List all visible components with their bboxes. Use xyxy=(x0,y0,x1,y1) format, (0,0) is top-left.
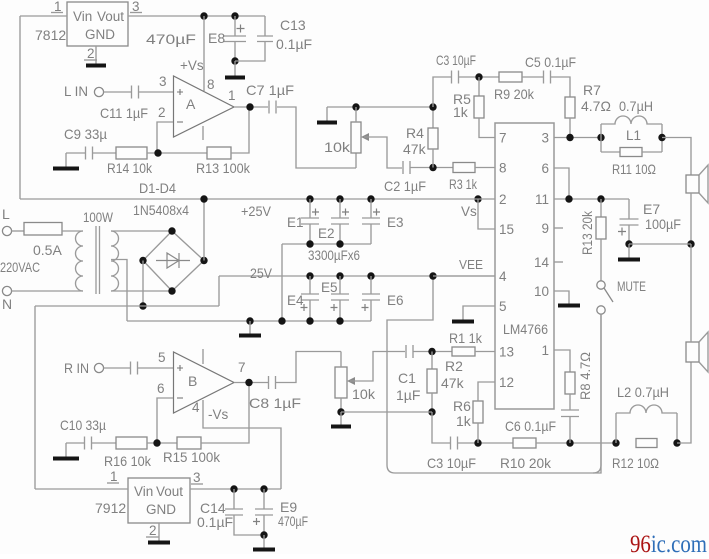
svg-text:R12 10Ω: R12 10Ω xyxy=(612,455,659,471)
svg-text:R16 10k: R16 10k xyxy=(104,453,152,469)
svg-text:E5: E5 xyxy=(321,280,338,295)
wire 7912 Vin xyxy=(35,488,128,490)
wire R7 to pin3 line xyxy=(569,118,571,138)
svg-text:R14 10k: R14 10k xyxy=(107,160,153,176)
capacitor C10 33u xyxy=(85,437,92,450)
wire +25V rail xyxy=(20,198,478,200)
wire -25V jog up xyxy=(218,276,220,306)
wire C5 to R7 xyxy=(550,77,570,97)
capacitor C14 0.1uF xyxy=(233,489,235,509)
svg-text:12: 12 xyxy=(499,375,514,390)
svg-text:R13 20k: R13 20k xyxy=(580,211,595,255)
node R13 top xyxy=(597,195,604,202)
resistor R8 4.7ohm (pin1) xyxy=(554,350,570,372)
wire N to transformer xyxy=(12,290,84,292)
svg-text:220VAC: 220VAC xyxy=(0,259,40,275)
svg-text:Vout: Vout xyxy=(156,484,183,499)
svg-text:C9 33µ: C9 33µ xyxy=(64,126,107,142)
wire left border to 7912 xyxy=(34,306,36,489)
regulator U2 7812 xyxy=(67,2,128,46)
svg-text:2: 2 xyxy=(87,46,95,61)
svg-text:C6 0.1µF: C6 0.1µF xyxy=(505,418,556,434)
capacitor E6 3300uF xyxy=(370,276,372,294)
svg-text:15: 15 xyxy=(499,222,514,237)
transformer T1 core xyxy=(96,226,100,294)
svg-text:E4: E4 xyxy=(287,293,304,308)
svg-text:2: 2 xyxy=(149,523,157,538)
wire L2 to speaker2 xyxy=(677,362,691,443)
svg-text:R1 1k: R1 1k xyxy=(449,330,483,346)
node VEE branch xyxy=(429,272,436,279)
svg-text:0.1µF: 0.1µF xyxy=(197,514,233,530)
svg-text:B: B xyxy=(188,373,197,389)
wire op-amp B -Vs to 7912 xyxy=(203,400,281,489)
transformer T1 primary xyxy=(76,231,83,291)
svg-text:10k: 10k xyxy=(352,386,376,402)
svg-text:8: 8 xyxy=(207,77,215,92)
resistor R16 10k xyxy=(116,437,147,449)
node C14 top xyxy=(230,485,237,492)
svg-text:47k: 47k xyxy=(441,375,465,391)
wire pot A top rail xyxy=(327,106,433,108)
node bridge right xyxy=(200,257,207,264)
capacitor C1 1uF xyxy=(406,345,413,358)
capacitor C8 1uF xyxy=(269,376,276,389)
ground C9 xyxy=(65,153,67,167)
capacitor C3 10uF bottom xyxy=(451,437,458,450)
svg-text:0.7µH: 0.7µH xyxy=(619,98,653,114)
svg-text:L IN: L IN xyxy=(64,83,88,99)
wiper pot A xyxy=(361,133,369,141)
node E5 top xyxy=(336,272,343,279)
wire node to C3 xyxy=(433,77,451,107)
node bridge bottom xyxy=(168,287,175,294)
terminal L xyxy=(2,226,11,235)
node E6 top xyxy=(367,272,374,279)
wire 7912 Vout line xyxy=(190,488,281,490)
svg-text:+Vs: +Vs xyxy=(180,58,204,73)
wire E7 to speaker common xyxy=(629,243,691,245)
wire ground to C10 xyxy=(66,442,84,444)
wire R3 to pin 8 xyxy=(475,167,495,169)
wire pot B to R2 bottom xyxy=(341,411,432,413)
resistor R5 1k xyxy=(478,77,480,96)
wire bridge + to +25V rail xyxy=(203,199,205,261)
wire pin6 to pin11 node xyxy=(554,168,569,199)
svg-text:R4: R4 xyxy=(406,125,424,141)
capacitor C5 0.1uF xyxy=(544,71,551,84)
node E7 bottom xyxy=(625,240,632,247)
node R7 bottom xyxy=(566,134,573,141)
svg-text:L1: L1 xyxy=(626,128,641,143)
wire pot B wiper to C1 xyxy=(350,352,405,382)
svg-text:1k: 1k xyxy=(456,413,472,429)
wire C12 to op-amp B pin5 xyxy=(138,367,173,369)
svg-text:E6: E6 xyxy=(387,293,404,308)
node E1 top xyxy=(306,195,313,202)
inductor L2 0.7uH xyxy=(615,413,617,443)
bridge rectifier D1-D4 xyxy=(143,231,204,291)
potentiometer VR2 10k xyxy=(335,367,347,398)
wire L to fuse xyxy=(12,230,25,232)
node E3 top xyxy=(367,195,374,202)
wire C3 to R9 xyxy=(459,76,499,78)
svg-text:R11 10Ω: R11 10Ω xyxy=(612,161,656,177)
ground E9 xyxy=(263,535,265,548)
svg-text:100W: 100W xyxy=(83,209,114,225)
capacitor E3 3300uF xyxy=(370,199,372,218)
wire pin3 output xyxy=(554,137,601,139)
svg-text:E7: E7 xyxy=(643,201,660,217)
wire mid rail to 0V xyxy=(281,244,283,321)
wire pot A wiper to C2 xyxy=(364,137,402,168)
svg-text:7: 7 xyxy=(499,131,507,146)
svg-text:C10 33µ: C10 33µ xyxy=(60,417,106,433)
node E4 top xyxy=(306,272,313,279)
regulator U4 7912 xyxy=(128,478,190,523)
svg-text:8: 8 xyxy=(499,161,507,176)
node bridge top xyxy=(168,227,175,234)
capacitor E9 470uF xyxy=(263,489,265,509)
svg-text:1µF: 1µF xyxy=(396,387,420,403)
op-amp U3 LM4766 xyxy=(495,123,554,409)
node bridge plus on rail xyxy=(200,195,207,202)
svg-text:1k: 1k xyxy=(453,104,469,120)
svg-text:VEE: VEE xyxy=(459,257,483,272)
svg-text:R10 20k: R10 20k xyxy=(500,455,552,471)
svg-text:LM4766: LM4766 xyxy=(503,322,548,337)
wire R16 to R15 xyxy=(147,442,177,444)
capacitor E2 3300uF xyxy=(339,199,341,218)
resistor R6 1k xyxy=(473,401,483,423)
wire C7 to pot bottom xyxy=(277,107,356,168)
ground 0V rail xyxy=(249,321,251,334)
svg-text:C8 1µF: C8 1µF xyxy=(249,395,301,411)
node R4 bottom xyxy=(429,164,436,171)
svg-text:E8: E8 xyxy=(208,30,225,46)
capacitor C9 33u xyxy=(86,147,93,160)
ground pin10 xyxy=(568,303,570,304)
wire pin11 mute node xyxy=(554,198,629,200)
resistor R11 10ohm xyxy=(661,124,663,152)
node R2 top xyxy=(428,348,435,355)
capacitor C7 1uF xyxy=(269,101,276,114)
svg-text:1: 1 xyxy=(541,343,549,358)
resistor R13 100k xyxy=(207,147,231,159)
node L1 right xyxy=(658,134,665,141)
wire VEE to pin4 xyxy=(433,275,495,277)
svg-text:7: 7 xyxy=(238,360,246,375)
svg-text:C2 1µF: C2 1µF xyxy=(384,178,426,194)
ground 7912 GND xyxy=(158,523,160,541)
capacitor E4 3300uF xyxy=(309,276,311,294)
svg-text:3: 3 xyxy=(159,74,167,89)
wire op-amp A pin4 stub xyxy=(202,126,204,140)
svg-text:C11 1µF: C11 1µF xyxy=(100,105,148,121)
wire op-amp B output xyxy=(234,382,268,384)
speaker SP2 xyxy=(686,342,699,362)
capacitor C12 1uF xyxy=(131,362,138,375)
svg-text:C3 10µF: C3 10µF xyxy=(436,52,476,68)
resistor R4 47k xyxy=(432,107,434,128)
svg-text:E1: E1 xyxy=(287,215,304,230)
wire 0V rail xyxy=(127,320,371,322)
wire speaker2 to common xyxy=(690,244,692,342)
inductor L1 0.7uH xyxy=(600,124,602,152)
wire E-bank mid rail xyxy=(282,243,371,245)
ground pot A top xyxy=(326,107,328,121)
node R4 top xyxy=(429,103,436,110)
svg-text:25V: 25V xyxy=(250,265,273,281)
svg-text:R9 20k: R9 20k xyxy=(494,86,535,102)
wire VEE route bottom xyxy=(387,276,601,473)
diode symbol xyxy=(156,253,190,268)
svg-text:2: 2 xyxy=(499,192,507,207)
svg-text:7812: 7812 xyxy=(35,27,66,43)
capacitor E1 3300uF xyxy=(309,199,311,218)
svg-text:Vs: Vs xyxy=(461,204,477,219)
transformer T1 secondary xyxy=(111,231,119,291)
svg-text:11: 11 xyxy=(535,192,549,207)
ground pot B xyxy=(340,412,342,425)
resistor R3 1k xyxy=(453,163,475,173)
wire Vs to pin2 xyxy=(478,198,495,200)
svg-text:L2 0.7µH: L2 0.7µH xyxy=(617,384,669,400)
svg-text:4: 4 xyxy=(192,400,200,415)
capacitor C2 1uF xyxy=(403,161,410,174)
svg-text:R8 4.7Ω: R8 4.7Ω xyxy=(578,352,593,400)
resistor R1 1k xyxy=(452,347,475,356)
svg-text:100µF: 100µF xyxy=(645,216,681,232)
svg-text:C1: C1 xyxy=(398,370,416,386)
wire pin14 stub xyxy=(554,261,563,263)
wire Vs to pin15 xyxy=(478,199,495,229)
svg-text:14: 14 xyxy=(534,255,550,270)
node E2 top xyxy=(336,195,343,202)
svg-text:E3: E3 xyxy=(387,215,404,230)
capacitor C6 0.1uF xyxy=(561,410,579,417)
wire speaker1 to ground bus xyxy=(690,193,692,244)
node bridge left xyxy=(139,257,146,264)
wire bridge - down xyxy=(142,261,144,307)
wire secondary top to bridge xyxy=(111,230,172,232)
node -25V branch xyxy=(139,302,146,309)
svg-text:10k: 10k xyxy=(324,139,351,155)
svg-text:C13: C13 xyxy=(280,17,306,33)
svg-text:96ic.com: 96ic.com xyxy=(630,531,707,554)
wire C1 to R1 xyxy=(413,351,452,353)
capacitor C3 10uF top xyxy=(452,71,459,84)
wire R10 to L2 xyxy=(536,442,616,444)
node E8 top xyxy=(231,12,238,19)
svg-text:0.5A: 0.5A xyxy=(33,242,62,258)
wire L IN to C11 xyxy=(104,91,131,93)
svg-text:1: 1 xyxy=(228,88,236,103)
svg-text:47k: 47k xyxy=(403,141,427,157)
svg-text:A: A xyxy=(186,96,196,112)
svg-text:5: 5 xyxy=(499,299,507,314)
resistor R14 10k xyxy=(116,147,147,159)
ground 7812 GND xyxy=(95,46,97,64)
wire secondary bottom to bridge xyxy=(111,290,172,292)
svg-text:L: L xyxy=(2,206,10,222)
wire C9 to R14 xyxy=(93,152,116,154)
svg-text:7912: 7912 xyxy=(95,500,126,516)
wire C2 to R3 xyxy=(410,167,453,169)
resistor R2 47k xyxy=(431,352,433,370)
potentiometer VR1 10k xyxy=(351,122,361,153)
wire center tap down xyxy=(111,260,127,322)
svg-text:1: 1 xyxy=(110,469,118,484)
capacitor E7 100uF xyxy=(628,199,630,219)
wire pin5 to ground xyxy=(463,306,495,318)
switch MUTE xyxy=(597,281,605,289)
ground pin5 xyxy=(462,318,464,320)
svg-text:13: 13 xyxy=(499,345,514,360)
svg-text:2: 2 xyxy=(158,105,166,120)
wire R15 to output B xyxy=(201,383,249,444)
terminal R IN xyxy=(94,363,103,372)
wire -25V run xyxy=(35,305,219,307)
node output B xyxy=(245,379,252,386)
wire +Vs to op-amp A pin8 xyxy=(203,16,205,91)
wire mute to VEE route right xyxy=(593,314,601,473)
resistor R9 20k xyxy=(499,72,522,82)
node E8 bottom xyxy=(231,57,238,64)
fuse F1 0.5A xyxy=(24,223,62,236)
wire down to C3 bottom xyxy=(432,412,450,443)
node E9 bottom xyxy=(260,531,267,538)
wire R1 to pin13 xyxy=(475,351,495,353)
svg-text:3: 3 xyxy=(541,131,549,146)
node feedback A xyxy=(154,149,161,156)
resistor R7 4.7ohm xyxy=(565,97,575,118)
svg-text:R2: R2 xyxy=(445,358,463,374)
svg-text:N: N xyxy=(2,296,12,312)
wire C11 to op-amp A pin3 xyxy=(139,91,173,93)
svg-text:R IN: R IN xyxy=(64,360,89,376)
wire +12V rail from 7812 Vout xyxy=(128,15,265,17)
svg-text:-Vs: -Vs xyxy=(208,407,229,422)
svg-text:D1-D4: D1-D4 xyxy=(139,180,176,196)
svg-text:470µF: 470µF xyxy=(146,32,196,47)
svg-text:+25V: +25V xyxy=(241,203,272,219)
wiper pot B xyxy=(347,377,355,385)
wire pin10 to ground xyxy=(554,291,569,303)
svg-text:R13 100k: R13 100k xyxy=(196,160,251,176)
wire pot B bottom xyxy=(340,398,342,412)
node pot B bottom xyxy=(337,408,344,415)
wire ground to C9 xyxy=(66,152,85,154)
wire R14 to R13 xyxy=(147,152,207,154)
wire left border to +25V rail xyxy=(19,16,21,199)
svg-text:GND: GND xyxy=(85,27,115,42)
wire pot bottom stem xyxy=(355,153,357,168)
svg-text:4.7Ω: 4.7Ω xyxy=(581,98,611,114)
svg-text:R15 100k: R15 100k xyxy=(163,449,221,465)
wire to speaker 1 xyxy=(662,138,691,176)
node R2 bottom xyxy=(428,408,435,415)
svg-text:Vin: Vin xyxy=(73,9,92,24)
node L2 right xyxy=(673,439,680,446)
wire C3 to R10 xyxy=(458,442,513,444)
svg-text:R7: R7 xyxy=(583,82,601,98)
node R6 bottom xyxy=(474,439,481,446)
svg-text:9: 9 xyxy=(541,221,549,236)
node C6 bottom xyxy=(566,439,573,446)
ground C10 xyxy=(65,443,67,457)
svg-text:C5 0.1µF: C5 0.1µF xyxy=(525,54,576,70)
resistor R13 20k (mute) xyxy=(600,199,602,217)
node speaker common xyxy=(687,240,694,247)
resistor R15 100k xyxy=(177,437,201,449)
svg-text:6: 6 xyxy=(541,161,549,176)
svg-text:R3 1k: R3 1k xyxy=(449,176,478,192)
svg-text:GND: GND xyxy=(146,502,176,517)
wire C8 to pot B top xyxy=(276,352,341,383)
ground E7 xyxy=(628,244,630,258)
resistor R12 10ohm xyxy=(636,439,657,448)
capacitor E5 3300uF xyxy=(339,276,341,294)
svg-text:5: 5 xyxy=(158,350,166,365)
resistor R10 20k xyxy=(513,438,536,448)
ground E8 xyxy=(234,61,236,76)
wire op-amp B pin8 stub xyxy=(202,349,204,364)
wire R13 to output A xyxy=(231,107,249,153)
svg-text:1N5408x4: 1N5408x4 xyxy=(133,202,189,218)
node +12V junction opamp A supply xyxy=(200,12,207,19)
svg-text:C7 1µF: C7 1µF xyxy=(246,82,294,98)
node L2 left xyxy=(612,439,619,446)
svg-text:470µF: 470µF xyxy=(278,513,308,529)
terminal L IN xyxy=(94,87,103,96)
speaker SP1 xyxy=(686,175,699,193)
node E9 top xyxy=(260,485,267,492)
node pot A top xyxy=(352,103,359,110)
svg-text:3: 3 xyxy=(193,470,201,485)
node Vs xyxy=(474,195,481,202)
svg-text:0.1µF: 0.1µF xyxy=(276,36,312,52)
svg-text:E2: E2 xyxy=(318,226,335,241)
wire op-amp A output xyxy=(234,106,268,108)
wire op-amp B pin6 to feedback xyxy=(157,398,173,443)
wire R IN to C12 xyxy=(104,367,130,369)
capacitor E8 470uF xyxy=(234,16,236,36)
wire VEE rail xyxy=(219,275,495,277)
capacitor C13 0.1uF xyxy=(264,16,266,36)
svg-text:4: 4 xyxy=(499,269,507,284)
svg-text:3300µFx6: 3300µFx6 xyxy=(308,247,360,263)
capacitor C11 1uF xyxy=(132,86,139,99)
wire op-amp A pin2 to feedback xyxy=(157,122,173,153)
op-amp U1A xyxy=(174,76,235,137)
node feedback B xyxy=(153,439,160,446)
node R5 top xyxy=(475,73,482,80)
wire fuse to transformer xyxy=(62,230,83,232)
svg-text:MUTE: MUTE xyxy=(617,278,646,294)
node output A xyxy=(246,103,253,110)
terminal N xyxy=(2,286,11,295)
svg-text:Vin: Vin xyxy=(134,484,153,499)
svg-text:R6: R6 xyxy=(453,398,471,414)
wire pin9 stub xyxy=(554,227,563,229)
wire R9 to C5 xyxy=(522,76,543,78)
wire C10 to R16 xyxy=(92,442,116,444)
node L1 left xyxy=(597,134,604,141)
svg-text:C3 10µF: C3 10µF xyxy=(427,455,476,471)
svg-text:Vout: Vout xyxy=(97,9,124,24)
op-amp U1B xyxy=(174,352,235,413)
